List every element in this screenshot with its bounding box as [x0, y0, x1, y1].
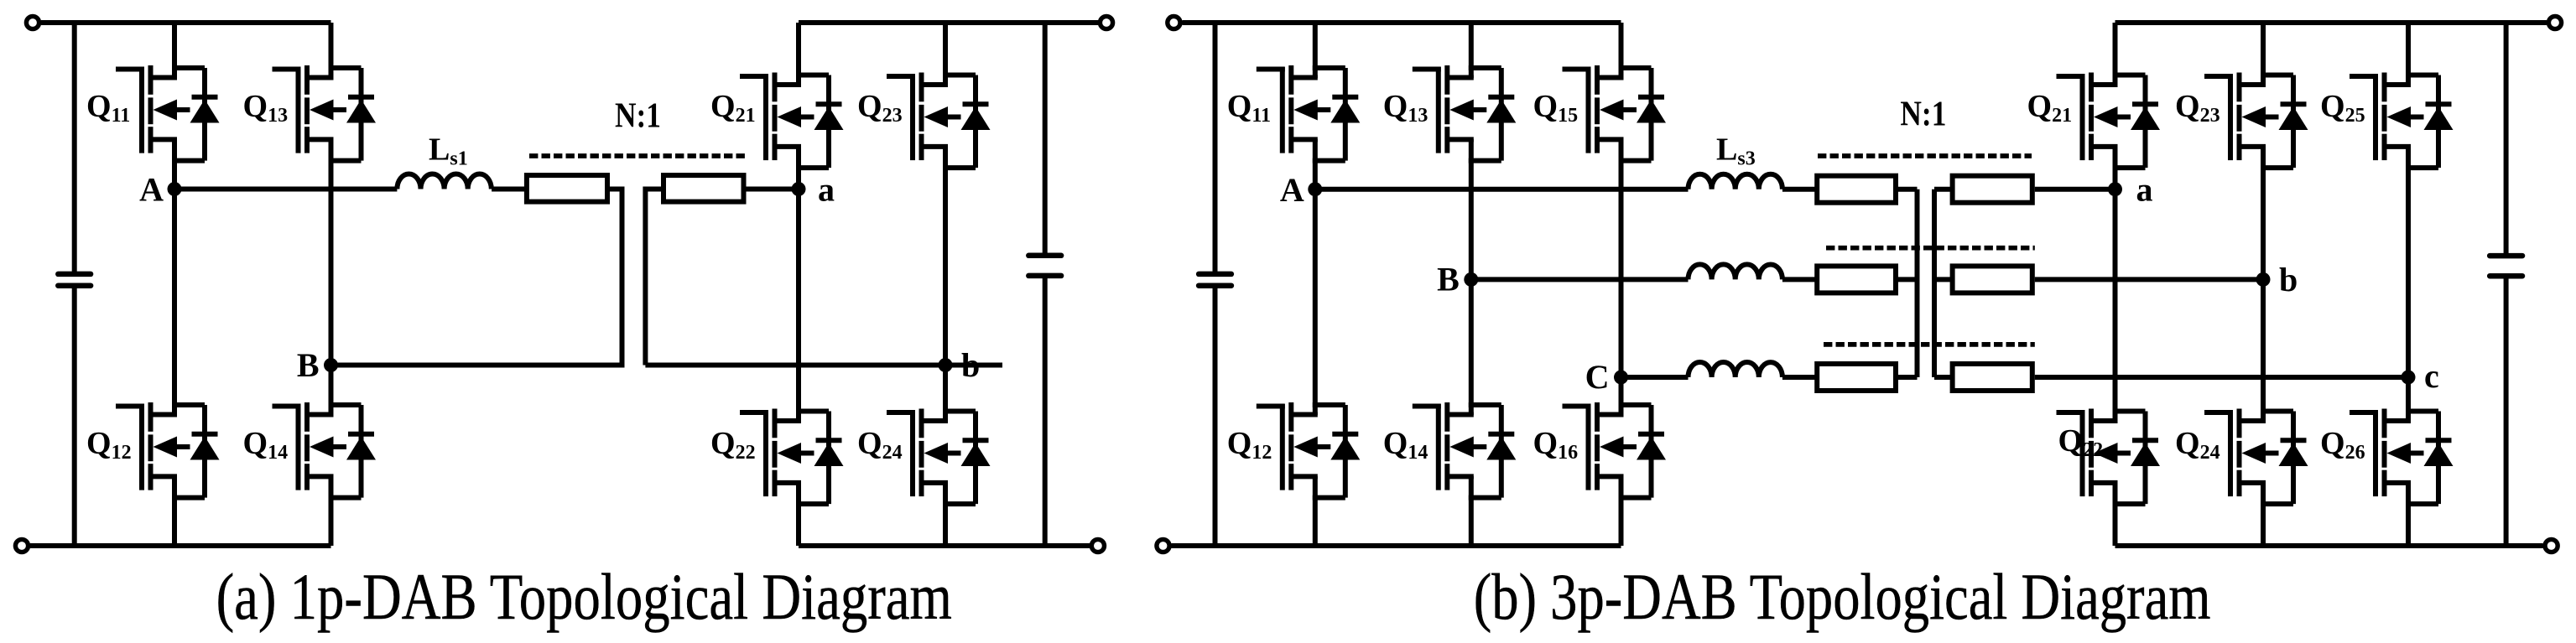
- wire: primary winding B to neutral (b): [1896, 277, 1918, 282]
- svg-text:B: B: [297, 346, 320, 384]
- wire: node a to Q22 drain (a): [796, 189, 801, 422]
- wire: Q13 drain (a): [329, 23, 334, 78]
- wire: secondary neutral (b): [1932, 189, 1937, 377]
- transformer T3 primary winding A (b): [1817, 176, 1896, 203]
- transistor Q11 (b): [1257, 65, 1361, 161]
- svg-text:(a) 1p-DAB Topological Diagram: (a) 1p-DAB Topological Diagram: [216, 561, 952, 634]
- node a (a): [792, 182, 806, 196]
- transistor Q25 (b): [2350, 73, 2454, 169]
- terminal: DC input - (b): [1157, 539, 1169, 552]
- wire: input capacitor branch bottom (b): [1213, 288, 1218, 546]
- capacitor: output cap (b): [2490, 253, 2522, 259]
- wire: node b to Q24 drain (a): [943, 366, 948, 422]
- transformer T3 primary winding B (b): [1817, 266, 1896, 293]
- wire: Q21 drain (b): [2113, 23, 2118, 86]
- wire: Q23 source to node b (a): [943, 147, 948, 366]
- transformer core phase A (b): [1818, 153, 2032, 158]
- wire: node B to inductor 2 (b): [1471, 277, 1689, 282]
- wire: bottom rail left bridge (a): [30, 543, 331, 548]
- wire: top rail right bridge (b): [2115, 20, 2547, 25]
- transistor Q15 (b): [1563, 65, 1667, 161]
- terminal: DC input - (a): [15, 539, 28, 552]
- wire: output capacitor branch bottom (b): [2504, 278, 2509, 546]
- inductor Ls1: [397, 174, 491, 189]
- transformer T3 primary winding C (b): [1817, 364, 1896, 391]
- wire: bottom rail right bridge (a): [799, 543, 1090, 548]
- wire: inductor to primary winding C (b): [1782, 375, 1817, 380]
- wire: node C to Q16 drain (b): [1619, 377, 1624, 415]
- transformer core phase C (b): [1824, 342, 2035, 347]
- capacitor: input cap (b): [1199, 272, 1231, 277]
- wire: Q13 source to node B (b): [1469, 139, 1474, 279]
- transistor Q22 (a): [740, 409, 844, 505]
- terminal: DC input + (a): [26, 16, 39, 29]
- wire: Q14 source to bottom rail (b): [1469, 476, 1474, 546]
- node C (b): [1614, 371, 1628, 385]
- transformer T1 secondary winding (a): [664, 175, 744, 202]
- wire: node C to inductor 3 (b): [1621, 375, 1689, 380]
- wire: secondary neutral to winding c (b): [1934, 375, 1953, 380]
- transistor Q22 (b): [2057, 409, 2161, 505]
- wire: node B to Q14 drain (b): [1469, 279, 1474, 415]
- wire: node A to inductor (a): [174, 187, 397, 192]
- node a (b): [2108, 182, 2122, 196]
- transistor Q23 (b): [2204, 73, 2308, 169]
- transformer T3 secondary winding c (b): [1953, 364, 2032, 391]
- wire: Q23 source to node b (b): [2261, 147, 2266, 280]
- wire: secondary winding to node a (a): [744, 187, 799, 192]
- wire: inductor to primary winding A (b): [1782, 187, 1817, 192]
- wire: top rail left bridge (b): [1183, 20, 1621, 25]
- capacitor: output cap (a): [1028, 253, 1061, 259]
- inductor Ls3 phase A: [1689, 174, 1782, 189]
- node b (b): [2256, 272, 2271, 287]
- transistor Q24 (b): [2204, 409, 2308, 505]
- svg-text:a: a: [818, 171, 835, 209]
- transistor Q12 (a): [116, 402, 220, 498]
- transistor Q13 (b): [1413, 65, 1517, 161]
- wire: input capacitor branch top (b): [1213, 23, 1218, 272]
- wire: output capacitor branch top (a): [1043, 23, 1048, 253]
- svg-text:A: A: [1280, 171, 1304, 209]
- wire: node a to Q22 drain (b): [2113, 189, 2118, 422]
- wire: inductor to primary winding (a): [492, 187, 527, 192]
- wire: node A to inductor 1 (b): [1315, 187, 1689, 192]
- transistor Q12 (b): [1257, 402, 1361, 498]
- wire: secondary winding c to node c (b): [2035, 375, 2408, 380]
- wire: top rail right bridge (a): [799, 20, 1099, 25]
- wire: Q13 source to node B (a): [329, 139, 334, 366]
- wire: output capacitor branch top (b): [2504, 23, 2509, 253]
- capacitor: input cap (a): [58, 272, 91, 277]
- wire: Q26 source to bottom rail (b): [2406, 483, 2411, 547]
- node A (b): [1308, 182, 1322, 196]
- wire: bottom rail left bridge (b): [1172, 543, 1621, 548]
- svg-text:(b) 3p-DAB Topological Diagram: (b) 3p-DAB Topological Diagram: [1474, 561, 2211, 634]
- terminal: DC output + (b): [2548, 16, 2561, 29]
- terminal: DC output - (a): [1091, 539, 1104, 552]
- wire: bottom rail right bridge (b): [2115, 543, 2543, 548]
- wire: node b to Q24 drain (b): [2261, 279, 2266, 421]
- wire: node A to Q12 drain (a): [172, 189, 177, 416]
- transistor Q16 (b): [1563, 402, 1667, 498]
- svg-text:A: A: [139, 171, 164, 209]
- transformer T3 secondary winding b (b): [1953, 266, 2032, 293]
- wire: Q24 source to bottom rail (a): [943, 483, 948, 547]
- svg-text:B: B: [1437, 260, 1460, 298]
- transistor Q24 (a): [887, 409, 991, 505]
- wire: Q22 source to bottom rail (b): [2113, 483, 2118, 547]
- wire: inductor to primary winding B (b): [1782, 277, 1817, 282]
- wire: Q22 source to bottom rail (a): [796, 483, 801, 547]
- wire: node c to Q26 drain (b): [2406, 377, 2411, 422]
- transistor Q14 (a): [273, 402, 377, 498]
- wire: Q11 drain (b): [1313, 23, 1318, 78]
- svg-text:C: C: [1585, 358, 1610, 396]
- terminal: DC output + (a): [1100, 16, 1112, 29]
- wire: Q11 source to node A (b): [1313, 139, 1318, 189]
- node B (a): [324, 358, 338, 372]
- wire: Q25 source to node c (b): [2406, 147, 2411, 378]
- inductor Ls3 phase C: [1689, 362, 1782, 377]
- wire: primary winding C to neutral (b): [1896, 375, 1918, 380]
- wire: Q14 source to bottom rail (a): [329, 476, 334, 546]
- wire: Q21 source to node a (b): [2113, 147, 2118, 189]
- wire: secondary return rail (a): [645, 363, 1002, 368]
- wire: primary winding return to node B (a): [331, 189, 622, 366]
- wire: secondary winding b to node b (b): [2035, 277, 2263, 282]
- wire: secondary winding left bend (a): [645, 189, 664, 366]
- wire: Q11 drain (a): [172, 23, 177, 78]
- wire: primary neutral (b): [1915, 189, 1920, 377]
- transistor Q21 (b): [2057, 73, 2161, 169]
- wire: node B to Q14 drain (a): [329, 366, 334, 416]
- wire: Q25 drain (b): [2406, 23, 2411, 86]
- wire: Q15 source to node C (b): [1619, 139, 1624, 377]
- svg-text:a: a: [2136, 171, 2153, 209]
- wire: Q21 drain (a): [796, 23, 801, 86]
- svg-text:N:1: N:1: [1900, 96, 1946, 134]
- transistor Q14 (b): [1413, 402, 1517, 498]
- wire: Q12 source to bottom rail (a): [172, 476, 177, 546]
- transformer T1 primary winding (a): [527, 175, 607, 202]
- wire: secondary winding a to node a (b): [2035, 187, 2115, 192]
- svg-text:b: b: [2279, 261, 2298, 298]
- wire: Q13 drain (b): [1469, 23, 1474, 78]
- wire: Q15 drain (b): [1619, 23, 1624, 78]
- wire: Q21 source to node a (a): [796, 147, 801, 189]
- terminal: DC output - (b): [2545, 539, 2558, 552]
- wire: input capacitor branch bottom (a): [72, 288, 77, 546]
- node B (b): [1464, 272, 1478, 287]
- transformer T3 secondary winding a (b): [1953, 176, 2032, 203]
- wire: primary winding A to neutral (b): [1896, 187, 1918, 192]
- wire: output capacitor branch bottom (a): [1043, 278, 1048, 546]
- transistor Q21 (a): [740, 73, 844, 169]
- terminal: DC input + (b): [1168, 16, 1180, 29]
- transistor Q13 (a): [273, 65, 377, 161]
- wire: Q23 drain (a): [943, 23, 948, 86]
- inductor Ls3 phase B: [1689, 264, 1782, 279]
- svg-text:c: c: [2424, 357, 2439, 395]
- node b (a): [939, 358, 953, 372]
- wire: Q24 source to bottom rail (b): [2261, 483, 2266, 547]
- transformer core phase B (b): [1826, 246, 2035, 251]
- svg-text:b: b: [961, 346, 980, 384]
- wire: Q12 source to bottom rail (b): [1313, 476, 1318, 546]
- wire: secondary neutral to winding b (b): [1934, 277, 1953, 282]
- transistor Q23 (a): [887, 73, 991, 169]
- node A (a): [168, 182, 182, 196]
- wire: top rail left bridge (a): [41, 20, 331, 25]
- wire: Q23 drain (b): [2261, 23, 2266, 86]
- transistor Q26 (b): [2350, 409, 2454, 505]
- wire: Q11 source to node A (a): [172, 139, 177, 189]
- svg-text:N:1: N:1: [615, 96, 661, 135]
- node c (b): [2402, 371, 2416, 385]
- wire: secondary neutral to winding a (b): [1934, 187, 1953, 192]
- wire: node A to Q12 drain (b): [1313, 189, 1318, 415]
- wire: Q16 source to bottom rail (b): [1619, 476, 1624, 546]
- transformer core (a): [529, 153, 745, 158]
- wire: input capacitor branch top (a): [72, 23, 77, 272]
- transistor Q11 (a): [116, 65, 220, 161]
